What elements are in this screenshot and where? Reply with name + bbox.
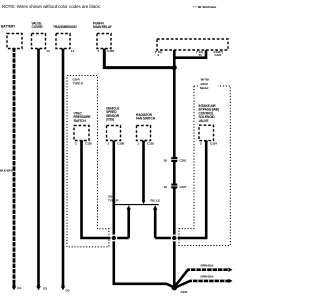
PGM-FI main relay [97, 34, 111, 49]
wire up arrow RS LS [153, 205, 157, 209]
svg-text:TRANSMISSION: TRANSMISSION [53, 25, 77, 29]
svg-text:C301: C301 [180, 158, 187, 162]
ground G1 [13, 284, 16, 287]
VTEC pin 2 C130 [79, 141, 83, 144]
svg-text:5: 5 [98, 49, 100, 53]
svg-text:14: 14 [71, 49, 75, 53]
inline connector C301 [171, 157, 177, 162]
valve cover pin 13 [36, 49, 40, 52]
svg-text:RS, LS: RS, LS [151, 198, 160, 202]
svg-text:C431: C431 [215, 53, 222, 57]
svg-text:C130: C130 [85, 141, 92, 145]
svg-text:BRN-BLK: BRN-BLK [201, 264, 215, 268]
junction dot ECM/bus [171, 235, 178, 242]
IAB control solenoid valve [199, 125, 214, 140]
ECM/PCM box [157, 39, 228, 50]
svg-text:1: 1 [108, 141, 110, 145]
wire BRN-BLK lower [177, 281, 229, 287]
svg-text:BATTERY: BATTERY [1, 25, 16, 29]
junction dot VSS/bus [110, 235, 117, 242]
VSS pin 1 C108 [112, 141, 116, 144]
svg-text:2: 2 [200, 142, 202, 146]
98-99 GS-R enclosure [179, 86, 230, 246]
svg-text:FAN SWITCH: FAN SWITCH [136, 117, 156, 121]
svg-text:TYPE R: TYPE R [73, 81, 84, 85]
IAB pin 2 C134 [204, 141, 208, 144]
wire radiator fan down to split [142, 141, 145, 202]
svg-text:1: 1 [137, 141, 139, 145]
wire up arrow GS-R [127, 208, 130, 239]
GS-R TYPE R enclosure [67, 76, 109, 247]
wire ECM pin 70 stub [174, 50, 206, 58]
svg-text:BLK-WHT: BLK-WHT [0, 169, 14, 173]
svg-text:NOTE: Wires shown without colo: NOTE: Wires shown without color codes ar… [2, 4, 101, 9]
svg-text:C127: C127 [180, 185, 187, 189]
svg-text:COVER: COVER [32, 25, 44, 29]
svg-text:C118: C118 [147, 141, 154, 145]
junction dot PGM-FI / ECM [172, 65, 177, 70]
wire BRN-BLK upper [176, 270, 229, 286]
radiator fan switch [137, 126, 151, 141]
svg-text:BRN-BLK: BRN-BLK [201, 275, 215, 279]
svg-text:VALVE: VALVE [199, 119, 210, 123]
transmission pin 14 [61, 49, 65, 52]
svg-text:2: 2 [75, 141, 77, 145]
wire PGM-FI down [103, 49, 106, 70]
svg-text:G1: G1 [17, 286, 21, 290]
PGM-FI pin 5 C448 [102, 49, 106, 52]
vehicle speed sensor [107, 126, 121, 141]
ground G2 [37, 284, 40, 287]
svg-text:G101: G101 [181, 290, 188, 294]
transmission [56, 34, 70, 49]
svg-text:C448: C448 [107, 49, 114, 53]
svg-text:TYPE R: TYPE R [108, 198, 119, 202]
VTEC pressure switch [74, 126, 89, 141]
wire transmission to G3 [62, 49, 65, 284]
radiator fan pin 1 C118 [141, 141, 145, 144]
svg-text:C108: C108 [117, 141, 124, 145]
svg-text:MAIN RELAY: MAIN RELAY [93, 25, 113, 29]
split line node [114, 204, 159, 206]
svg-text:(VSS): (VSS) [106, 118, 114, 122]
wire PGM-FI horizontal to junction [104, 66, 174, 69]
svg-text:G2: G2 [43, 287, 47, 291]
inline connector C127 [171, 184, 177, 189]
svg-text:G3: G3 [66, 289, 70, 293]
enclosure text [198, 77, 218, 91]
wire bus right to IAB [155, 142, 206, 238]
wire ECM pin 2 vertical to G101 [173, 50, 176, 288]
ground G101 dot [171, 285, 177, 291]
svg-text:SWITCH: SWITCH [74, 119, 87, 123]
svg-text:28: 28 [164, 158, 168, 162]
battery B1 [7, 34, 22, 49]
wire battery to G1 (striped) [13, 49, 16, 284]
wire VSS down to G101 [114, 141, 175, 288]
battery pin tick [12, 49, 16, 52]
svg-text:13: 13 [46, 49, 50, 53]
svg-text:18: 18 [164, 185, 168, 189]
svg-text:* = ’98-’99 Models: * = ’98-’99 Models [193, 5, 217, 9]
wire valve cover to G2 [37, 49, 40, 284]
svg-text:C134: C134 [210, 142, 217, 146]
ground G3 [62, 284, 65, 287]
wire VTEC down and right [82, 141, 129, 239]
valve cover [32, 34, 46, 49]
svg-text:Model: Model [200, 86, 208, 90]
